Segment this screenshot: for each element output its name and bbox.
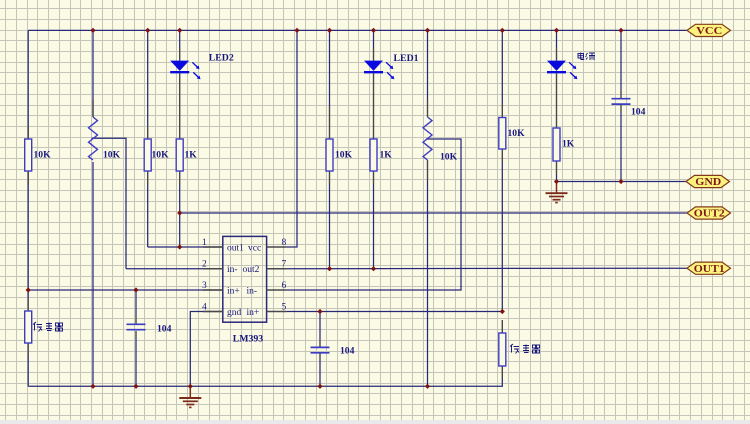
wire R6 column top xyxy=(501,30,503,104)
LED3 power indicator (label drawn below) xyxy=(547,61,577,80)
resistor 1K (LED1 series) xyxy=(370,139,392,171)
U1 internal pin names row 3: in+ in- xyxy=(227,286,257,296)
pin lead C1 bottom xyxy=(135,331,137,338)
svg-text:out2: out2 xyxy=(243,265,260,275)
svg-text:OUT1: OUT1 xyxy=(694,263,725,275)
svg-text:in-: in- xyxy=(227,265,238,275)
wire C3 bottom lead to bottom rail xyxy=(319,360,321,386)
pin lead R5 bottom xyxy=(373,171,375,184)
wire pot RP1 bottom lead to bottom rail xyxy=(92,162,94,386)
svg-text:in+: in+ xyxy=(227,286,240,296)
junction top rail / RP1 xyxy=(90,28,95,33)
svg-text:2: 2 xyxy=(202,260,207,270)
resistor 10K (left divider) xyxy=(25,139,51,171)
sensor 1 body (传感器) xyxy=(25,311,32,343)
svg-text:vcc: vcc xyxy=(248,243,261,253)
svg-text:1: 1 xyxy=(202,238,207,248)
wire C1 bottom lead to bottom rail xyxy=(135,338,137,386)
pin lead LED1 anode xyxy=(373,48,375,61)
resistor 10K (col 329 pull-up) xyxy=(326,139,353,171)
pin lead RP1 top xyxy=(92,100,94,117)
resistor 10K (col 502 pull-up) xyxy=(499,118,525,150)
svg-text:LM393: LM393 xyxy=(233,334,264,345)
junction bottom rail / RP2 xyxy=(425,384,430,389)
pin lead R6 bottom xyxy=(501,149,503,162)
pin lead R7 bottom xyxy=(556,161,558,174)
ground symbol (bottom rail) xyxy=(179,386,201,407)
pin lead C1 top xyxy=(135,316,137,324)
svg-text:10K: 10K xyxy=(440,152,458,163)
svg-text:in-: in- xyxy=(247,286,258,296)
pin lead C3 bottom xyxy=(319,353,321,360)
U1 pin number 2 xyxy=(202,260,207,270)
potentiometer RP2 10K xyxy=(423,117,458,163)
wire pin 1 row (R2 corner to U1 pin 1) xyxy=(148,246,223,248)
wire pot RP1 top lead to rail xyxy=(92,30,94,117)
wire LED3 column from rail xyxy=(556,30,558,48)
svg-text:LED1: LED1 xyxy=(394,53,419,64)
wire C2 top lead from rail xyxy=(620,30,622,90)
junction top rail / LED1 xyxy=(371,28,376,33)
wire pin 5 row (U1 to sensor column) xyxy=(287,311,503,313)
ground symbol (power LED node) xyxy=(546,182,568,203)
junction top rail / LED2 xyxy=(177,28,182,33)
LED1 xyxy=(364,53,419,79)
port OUT1 xyxy=(687,262,731,275)
LED3 label 电源 (drawn strokes) xyxy=(578,53,595,61)
wire R3 bottom lead down to pin1 row xyxy=(179,184,181,247)
svg-text:8: 8 xyxy=(282,238,287,248)
junction GND node / R7 xyxy=(554,179,559,184)
pin lead LED2 anode xyxy=(179,48,181,61)
junction top rail / RP2 xyxy=(425,28,430,33)
port GND xyxy=(686,175,730,188)
junction top rail / pin8 riser xyxy=(294,28,299,33)
pin lead LED1 cathode to R5 xyxy=(373,73,375,139)
U1 pin number 8 xyxy=(282,238,287,248)
svg-text:gnd: gnd xyxy=(227,308,242,318)
junction pin3 / left rail xyxy=(26,287,31,292)
wire top VCC rail xyxy=(28,29,687,31)
U1 pin number 3 xyxy=(202,281,207,291)
junction pin3 / C1 xyxy=(133,287,138,292)
wire left rail (top rail to pin3 node) xyxy=(27,30,29,290)
pin lead R1 top xyxy=(27,126,29,139)
junction pin7 / R5 xyxy=(371,266,376,271)
wire R2 column bottom down to pin1 row xyxy=(147,184,149,247)
wire R4 column top xyxy=(329,30,331,106)
resistor 1K (LED2 series) xyxy=(176,139,197,171)
U1 pin number 5 xyxy=(282,302,287,312)
pin lead sensor2 bottom xyxy=(501,366,503,378)
sensor 1 label 传感器 (drawn strokes) xyxy=(33,322,63,332)
wire C2 bottom lead to GND row xyxy=(620,112,622,182)
wire pin 3 row (left rail to U1 pin 3) xyxy=(28,289,223,291)
U1 pin number 4 xyxy=(202,302,207,312)
pin lead C3 top xyxy=(319,340,321,347)
wire GND row to connector xyxy=(557,181,687,183)
pin lead LED2 cathode to R3 xyxy=(179,73,181,139)
U1 pin number 1 xyxy=(202,238,207,248)
svg-text:in+: in+ xyxy=(247,308,260,318)
junction GND row / C2 xyxy=(618,179,623,184)
junction bottom rail / C3 xyxy=(317,384,322,389)
wire RP1 tap jog down xyxy=(92,138,127,268)
junction top rail / LED3 xyxy=(554,28,559,33)
junction bottom rail / ground xyxy=(188,384,193,389)
pin lead R6 top xyxy=(501,104,503,118)
svg-text:7: 7 xyxy=(282,260,287,270)
svg-text:104: 104 xyxy=(631,107,646,118)
svg-text:GND: GND xyxy=(695,176,721,188)
svg-text:4: 4 xyxy=(202,302,207,312)
svg-text:VCC: VCC xyxy=(696,25,722,37)
pin lead RP2 bottom xyxy=(427,160,429,180)
sensor 2 label 传感器 (drawn strokes) xyxy=(510,344,540,354)
pin lead R2 top xyxy=(147,126,149,139)
svg-text:104: 104 xyxy=(157,324,172,335)
pin lead sensor1 bottom xyxy=(27,343,29,356)
port OUT2 xyxy=(687,207,731,220)
svg-text:104: 104 xyxy=(340,346,355,357)
pin lead R1 bottom xyxy=(27,171,29,184)
junction top rail / R2 xyxy=(145,28,150,33)
svg-text:3: 3 xyxy=(202,281,207,291)
U1 pin leads left (pins 1-4) xyxy=(203,247,223,312)
wire LED2 column from rail xyxy=(179,30,181,48)
pin lead RP2 top xyxy=(427,100,429,117)
wire left rail below sensor1 xyxy=(27,356,29,386)
wire C3 top lead from pin5 row xyxy=(319,312,321,341)
junction pin7 / R4 xyxy=(327,266,332,271)
pin lead R3 bottom xyxy=(179,171,181,184)
wire R5 bottom lead to pin7 row xyxy=(373,184,375,269)
wire pin 8 riser from top rail xyxy=(287,30,297,247)
U1 internal pin names row 4: gnd in+ xyxy=(227,308,259,318)
junction bottom rail / C1 xyxy=(133,384,138,389)
junction top rail / R4 xyxy=(327,28,332,33)
wire R7 bottom lead to ground node xyxy=(556,174,558,182)
capacitor C2 104 xyxy=(612,99,646,118)
pin lead sensor1 top xyxy=(27,298,29,311)
capacitor C3 104 xyxy=(311,346,355,357)
junction pin5 / sensor2 xyxy=(500,309,505,314)
wire LED1 column from rail xyxy=(373,30,375,48)
wire R2 column top xyxy=(147,30,149,126)
potentiometer RP1 10K xyxy=(89,117,121,161)
svg-text:10K: 10K xyxy=(508,128,526,139)
U1 internal pin names row 2: in- out2 xyxy=(227,265,260,275)
junction pin5 / C3 xyxy=(317,309,322,314)
pin lead sensor2 top xyxy=(501,320,503,333)
pin lead LED3 anode xyxy=(556,48,558,61)
wire R4 column bottom to pin7 row xyxy=(329,184,331,269)
wire pot RP2 top lead to rail xyxy=(427,30,429,100)
resistor 1K (power LED series) xyxy=(553,128,575,161)
svg-text:1K: 1K xyxy=(185,150,198,161)
svg-text:10K: 10K xyxy=(152,150,170,161)
wire R6 column bottom to pin5 row xyxy=(501,162,503,312)
wire RP2 tap jog to pin6 row xyxy=(287,139,461,290)
U1 pin leads right (pins 5-8) xyxy=(267,247,287,312)
wire sensor2 bottom lead and bottom rail xyxy=(28,378,502,386)
junction OUT2 node xyxy=(177,210,182,215)
pin lead R2 bottom xyxy=(147,171,149,184)
svg-text:1K: 1K xyxy=(562,139,575,150)
junction top rail / C2 xyxy=(618,28,623,33)
wire left rail above sensor1 xyxy=(27,290,29,298)
pin lead C2 bottom xyxy=(620,105,622,113)
svg-text:5: 5 xyxy=(282,302,287,312)
svg-text:10K: 10K xyxy=(34,150,52,161)
pin lead LED3 cathode to R7 xyxy=(556,73,558,128)
op-amp U1 LM393 body xyxy=(223,236,267,344)
junction bottom rail / RP1 xyxy=(90,384,95,389)
pin lead R4 bottom xyxy=(329,171,331,184)
svg-text:1K: 1K xyxy=(380,150,393,161)
wire C1 top lead from pin3 row xyxy=(135,290,137,316)
U1 pin number 7 xyxy=(282,260,287,270)
svg-text:10K: 10K xyxy=(335,150,353,161)
capacitor C1 104 xyxy=(127,324,172,335)
svg-text:LED2: LED2 xyxy=(209,53,234,64)
wire pot RP2 bottom lead to bottom rail xyxy=(427,180,429,386)
U1 internal pin names row 1: out1 vcc xyxy=(227,243,261,253)
wire OUT2 row xyxy=(180,212,687,214)
port VCC xyxy=(687,24,731,37)
pin lead C2 top xyxy=(620,90,622,98)
wire pin 2 row (jog to U1 pin 2) xyxy=(126,268,223,270)
svg-text:OUT2: OUT2 xyxy=(694,208,726,220)
LED2 xyxy=(170,53,234,80)
sensor 2 body (传感器) xyxy=(499,333,506,366)
junction top rail / R6 xyxy=(500,28,505,33)
svg-text:6: 6 xyxy=(282,281,287,291)
wire pin 4 row and ground column xyxy=(190,312,223,387)
U1 pin number 6 xyxy=(282,281,287,291)
resistor 10K (col 147) xyxy=(144,139,169,171)
junction pin1 node xyxy=(177,244,182,249)
svg-text:out1: out1 xyxy=(227,243,244,253)
wire pin 7 row to OUT1 connector xyxy=(287,267,687,270)
pin lead R4 top xyxy=(329,106,331,139)
svg-text:10K: 10K xyxy=(103,150,121,161)
